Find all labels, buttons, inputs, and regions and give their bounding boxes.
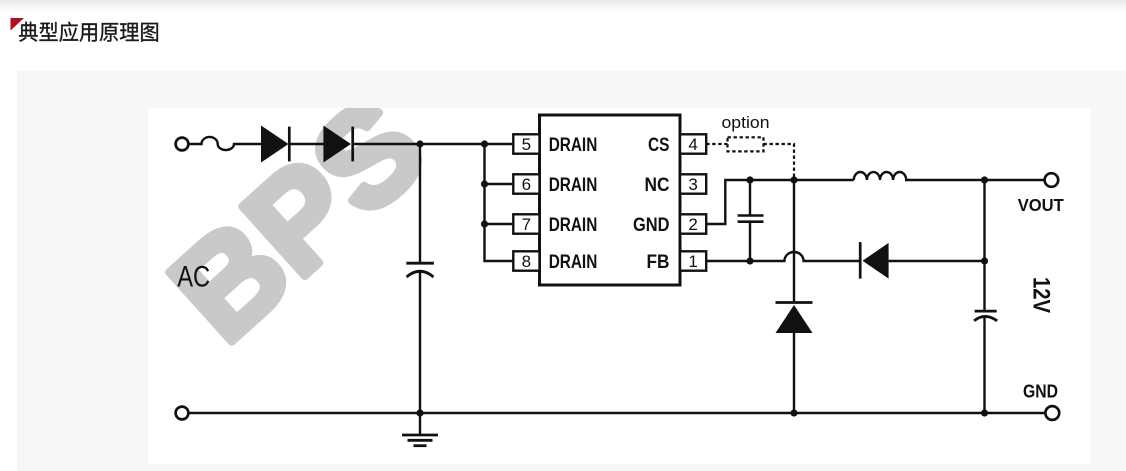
- svg-text:5: 5: [522, 135, 531, 154]
- svg-text:12V: 12V: [1028, 277, 1055, 314]
- svg-text:NC: NC: [645, 175, 670, 196]
- svg-text:VOUT: VOUT: [1018, 195, 1064, 215]
- svg-text:3: 3: [688, 175, 697, 194]
- svg-text:AC: AC: [177, 261, 210, 294]
- svg-text:2: 2: [688, 215, 697, 234]
- svg-text:DRAIN: DRAIN: [549, 175, 598, 196]
- svg-text:1: 1: [688, 252, 697, 271]
- svg-text:7: 7: [522, 215, 531, 234]
- svg-text:DRAIN: DRAIN: [549, 215, 598, 236]
- svg-text:DRAIN: DRAIN: [549, 252, 598, 273]
- svg-text:4: 4: [688, 135, 697, 154]
- svg-text:8: 8: [522, 252, 531, 271]
- svg-text:GND: GND: [1023, 381, 1058, 402]
- svg-text:BPS: BPS: [148, 108, 452, 369]
- svg-text:GND: GND: [633, 215, 670, 236]
- svg-text:CS: CS: [648, 135, 670, 156]
- svg-text:DRAIN: DRAIN: [549, 135, 598, 156]
- svg-text:6: 6: [522, 175, 531, 194]
- svg-text:FB: FB: [647, 252, 670, 273]
- svg-text:option: option: [722, 114, 770, 132]
